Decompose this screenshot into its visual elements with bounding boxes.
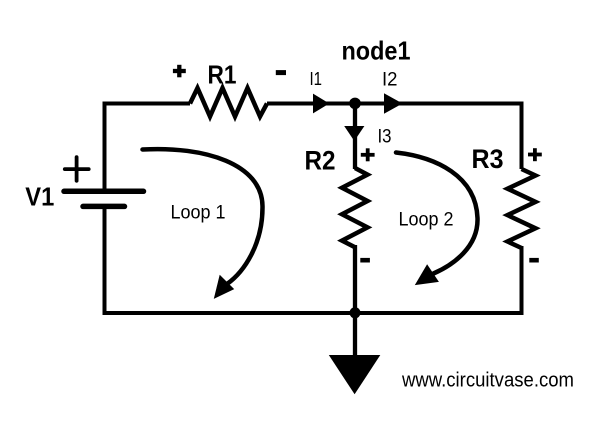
ground symbol triangle [329,355,381,394]
battery V1 plates [64,191,144,206]
svg-text:R2: R2 [305,146,336,176]
arrow I1 [313,94,329,114]
svg-text:I2: I2 [382,69,398,90]
loop 2 arrowhead [415,264,439,285]
svg-text:Loop 2: Loop 2 [399,209,454,230]
resistor R3 zigzag [508,169,536,248]
svg-text:R1: R1 [208,60,237,90]
loop 2 arrow curve [396,153,478,274]
svg-text:I3: I3 [378,127,392,148]
wire left-bottom vertical [103,204,107,315]
R3 minus sign [529,258,539,263]
R1 minus sign [276,70,286,75]
svg-text:V1: V1 [25,181,54,211]
wire left-top L (top-left corner) [105,104,191,192]
arrow I3 [344,126,364,141]
arrow I2 [384,93,403,113]
node dot bottom junction [350,307,361,318]
loop 1 arrowhead [214,275,234,299]
resistor R2 zigzag [342,168,368,247]
svg-text:www.circuitvase.com: www.circuitvase.com [401,369,574,391]
R3 plus sign [528,148,542,161]
loop 1 arrow curve [143,149,263,284]
wire ground stem [353,313,357,357]
wire top-right with corner [267,104,522,170]
resistor R1 zigzag [190,88,267,117]
svg-text:I1: I1 [310,69,323,89]
wire right-bottom vertical [520,246,524,315]
svg-text:R3: R3 [472,144,504,174]
node dot at node1 [349,98,361,110]
svg-text:Loop 1: Loop 1 [171,203,226,224]
svg-text:node1: node1 [342,35,411,65]
R2 plus sign [361,148,375,161]
wire bottom rail [103,311,522,315]
wire node1 stem down [353,104,357,170]
R2 minus sign [360,258,370,263]
battery plus sign [65,157,89,181]
R1 plus sign [173,65,186,78]
wire below R2 [353,245,357,313]
